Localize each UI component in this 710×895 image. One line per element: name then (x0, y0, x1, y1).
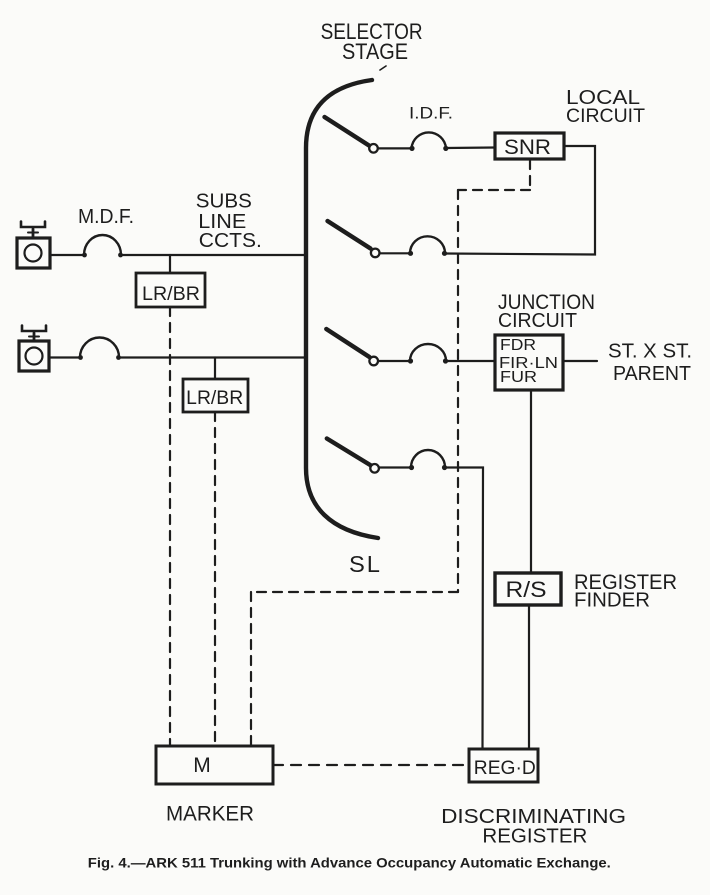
svg-text:MARKER: MARKER (166, 803, 254, 826)
dashed wire marker to REG-D (273, 764, 469, 766)
stub to LR/BR 1 (169, 255, 171, 273)
svg-text:M.D.F.: M.D.F. (78, 206, 134, 228)
svg-text:ST. X ST.: ST. X ST. (608, 341, 692, 363)
box FDR FIR-LN FUR (495, 335, 563, 390)
dashed wire SNR down (529, 160, 531, 190)
label ST. X ST. PARENT (608, 341, 692, 386)
svg-text:I.D.F.: I.D.F. (409, 104, 453, 123)
wire FDR box to ST X ST (563, 360, 597, 362)
svg-text:CIRCUIT: CIRCUIT (566, 106, 645, 127)
dashed wire LR/BR2 to marker (214, 412, 216, 746)
wire FDR to R/S (530, 390, 532, 573)
telephone 1 (17, 222, 50, 269)
IDF hump 1 (412, 132, 447, 148)
dashed wire to marker horizontal (251, 591, 458, 593)
switch contact circle 1 (369, 144, 378, 153)
label DISCRIMINATING REGISTER (441, 806, 626, 847)
hump dots 2 (408, 251, 447, 256)
wire SNR to local circuit loop (445, 146, 595, 255)
svg-text:FINDER: FINDER (574, 590, 650, 612)
wire hump4 to register finder line (445, 468, 483, 750)
svg-text:STAGE: STAGE (342, 39, 408, 64)
svg-text:FUR: FUR (500, 369, 537, 386)
wire switch1 to IDF hump (378, 147, 411, 149)
switch blade 2 (328, 221, 371, 249)
box SNR (495, 133, 564, 159)
svg-text:R/S: R/S (506, 577, 547, 602)
box M marker (156, 746, 273, 784)
wire switch3 to hump (378, 360, 411, 362)
label SUBS LINE CCTS. (196, 191, 262, 253)
hump 3 (410, 344, 446, 361)
subs line 1 wire to arc (121, 254, 306, 256)
svg-text:SNR: SNR (504, 136, 551, 159)
box REG-D (469, 749, 538, 782)
svg-text:PARENT: PARENT (613, 363, 691, 385)
hump dots 1 (409, 146, 448, 151)
box LR/BR 1 (136, 273, 205, 307)
wire switch4 to hump (379, 466, 412, 468)
svg-text:CCTS.: CCTS. (199, 230, 262, 252)
svg-text:REG·D: REG·D (474, 758, 536, 779)
dashed wire marker vertical 3 (250, 592, 252, 746)
selector stage arc bracket (306, 80, 378, 538)
dashed wire SNR left (458, 189, 530, 191)
svg-text:LR/BR: LR/BR (186, 388, 243, 409)
svg-text:LR/BR: LR/BR (142, 284, 200, 305)
svg-text:CIRCUIT: CIRCUIT (498, 310, 577, 332)
svg-text:SUBS: SUBS (196, 191, 252, 213)
hump 4 (411, 450, 445, 467)
svg-text:Fig. 4.—ARK 511 Trunking with: Fig. 4.—ARK 511 Trunking with Advance Oc… (88, 855, 611, 871)
wire switch2 to hump (380, 252, 412, 254)
subs line 2 wire to arc (119, 356, 306, 358)
label JUNCTION CIRCUIT (498, 291, 595, 332)
svg-text:S L: S L (349, 551, 380, 577)
svg-text:M: M (193, 754, 211, 777)
dashed wire register vertical (457, 190, 459, 592)
stub to LR/BR 2 (214, 358, 216, 380)
hump 2 (410, 236, 445, 253)
wire hump1 to SNR (446, 146, 495, 149)
switch contact circle 2 (371, 249, 380, 258)
telephone 2 (19, 326, 49, 372)
label REGISTER FINDER (574, 571, 677, 612)
stray mark (380, 66, 386, 70)
svg-text:FDR: FDR (500, 337, 536, 354)
subs line 2 wire (49, 356, 81, 358)
switch blade 1 (325, 117, 370, 146)
label SELECTOR STAGE (321, 19, 423, 64)
switch blade 3 (326, 329, 369, 357)
svg-text:REGISTER: REGISTER (482, 825, 587, 847)
box LR/BR 2 (183, 379, 248, 412)
box R/S (495, 573, 561, 605)
wire hump3 to FDR box (446, 360, 495, 362)
label LOCAL CIRCUIT (566, 87, 645, 127)
wire R/S to REG-D (528, 605, 530, 749)
switch blade 4 (327, 439, 371, 466)
switch contact circle 3 (369, 357, 378, 366)
dashed wire LR/BR1 to marker (169, 307, 171, 746)
switch contact circle 4 (370, 464, 379, 473)
subs line 1 wire (50, 254, 85, 256)
MDF hump 1 (84, 235, 121, 255)
MDF hump 2 (80, 338, 119, 358)
